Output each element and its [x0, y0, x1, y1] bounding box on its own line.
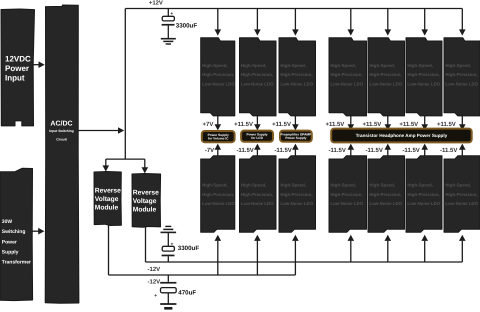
- svg-text:+11.5V: +11.5V: [234, 121, 253, 128]
- svg-text:Low-Noise LDO: Low-Noise LDO: [330, 201, 363, 206]
- svg-text:Input Switching: Input Switching: [49, 129, 74, 133]
- svg-text:High-Speed,: High-Speed,: [202, 183, 228, 188]
- svg-text:Voltage: Voltage: [95, 196, 119, 203]
- svg-text:Low-Noise LDO: Low-Noise LDO: [445, 81, 478, 86]
- svg-text:High-Precision,: High-Precision,: [202, 192, 234, 197]
- svg-text:High-Speed,: High-Speed,: [330, 63, 356, 68]
- svg-text:-11.5V: -11.5V: [402, 147, 419, 154]
- svg-text:High-Precision,: High-Precision,: [407, 72, 439, 77]
- svg-text:High-Speed,: High-Speed,: [241, 63, 267, 68]
- svg-text:High-Precision,: High-Precision,: [241, 192, 273, 197]
- svg-text:3300uF: 3300uF: [176, 22, 198, 29]
- svg-text:Supply: Supply: [2, 249, 19, 255]
- svg-text:Transistor Headphone Amp Power: Transistor Headphone Amp Power Supply: [356, 133, 448, 138]
- svg-text:High-Speed,: High-Speed,: [241, 183, 267, 188]
- svg-text:High-Speed,: High-Speed,: [445, 183, 471, 188]
- svg-text:+11.5V: +11.5V: [362, 121, 381, 128]
- svg-text:High-Speed,: High-Speed,: [330, 183, 356, 188]
- svg-text:Input: Input: [5, 74, 25, 83]
- svg-text:High-Precision,: High-Precision,: [445, 72, 477, 77]
- svg-text:Module: Module: [95, 205, 119, 212]
- svg-text:Power Supply: Power Supply: [285, 136, 306, 140]
- svg-text:+11.5V: +11.5V: [437, 121, 456, 128]
- svg-text:Low-Noise LDO: Low-Noise LDO: [202, 201, 235, 206]
- svg-text:Low-Noise LDO: Low-Noise LDO: [241, 201, 274, 206]
- svg-text:30W: 30W: [2, 219, 13, 225]
- svg-text:+: +: [154, 293, 157, 299]
- svg-text:Power: Power: [5, 64, 29, 73]
- svg-text:Low-Noise LDO: Low-Noise LDO: [369, 81, 402, 86]
- svg-text:Switching: Switching: [2, 229, 26, 235]
- svg-text:470uF: 470uF: [178, 290, 196, 297]
- svg-text:Low-Noise LDO: Low-Noise LDO: [445, 201, 478, 206]
- svg-text:High-Precision,: High-Precision,: [330, 192, 362, 197]
- svg-text:High-Precision,: High-Precision,: [280, 72, 312, 77]
- svg-text:Low-Noise LDO: Low-Noise LDO: [407, 201, 440, 206]
- svg-text:+11.5V: +11.5V: [399, 121, 418, 128]
- svg-text:AC/DC: AC/DC: [50, 119, 72, 127]
- svg-text:High-Precision,: High-Precision,: [241, 72, 273, 77]
- svg-text:+12V: +12V: [149, 0, 163, 7]
- svg-text:Low-Noise LDO: Low-Noise LDO: [330, 81, 363, 86]
- svg-text:High-Precision,: High-Precision,: [202, 72, 234, 77]
- svg-text:High-Speed,: High-Speed,: [407, 63, 433, 68]
- svg-text:High-Speed,: High-Speed,: [280, 183, 306, 188]
- svg-text:Low-Noise LDO: Low-Noise LDO: [280, 81, 313, 86]
- svg-text:-12V: -12V: [148, 266, 161, 273]
- svg-text:+7V: +7V: [203, 121, 214, 128]
- svg-text:Low-Noise LDO: Low-Noise LDO: [202, 81, 235, 86]
- svg-text:Module: Module: [133, 207, 157, 214]
- svg-text:for Volume IC: for Volume IC: [208, 137, 229, 141]
- svg-text:-11.5V: -11.5V: [236, 147, 253, 154]
- svg-text:+11.5V: +11.5V: [272, 121, 291, 128]
- svg-text:3300uF: 3300uF: [178, 245, 200, 252]
- svg-text:for LCD: for LCD: [251, 136, 263, 140]
- svg-text:Reverse: Reverse: [133, 189, 159, 196]
- svg-text:12VDC: 12VDC: [5, 55, 31, 64]
- svg-text:Low-Noise LDO: Low-Noise LDO: [280, 201, 313, 206]
- svg-text:-7V: -7V: [205, 147, 214, 154]
- svg-text:High-Speed,: High-Speed,: [280, 63, 306, 68]
- svg-text:High-Speed,: High-Speed,: [369, 183, 395, 188]
- svg-text:High-Speed,: High-Speed,: [369, 63, 395, 68]
- svg-text:-12V: -12V: [148, 279, 161, 286]
- svg-text:+11.5V: +11.5V: [325, 121, 344, 128]
- svg-text:Low-Noise LDO: Low-Noise LDO: [241, 81, 274, 86]
- svg-text:High-Precision,: High-Precision,: [280, 192, 312, 197]
- svg-text:High-Precision,: High-Precision,: [369, 192, 401, 197]
- svg-text:Low-Noise LDO: Low-Noise LDO: [369, 201, 402, 206]
- svg-text:Reverse: Reverse: [95, 187, 121, 194]
- svg-text:Power: Power: [2, 239, 17, 245]
- svg-text:Voltage: Voltage: [133, 198, 157, 205]
- svg-text:-11.5V: -11.5V: [440, 147, 457, 154]
- svg-text:High-Precision,: High-Precision,: [407, 192, 439, 197]
- svg-text:High-Speed,: High-Speed,: [202, 63, 228, 68]
- svg-text:High-Speed,: High-Speed,: [445, 63, 471, 68]
- svg-text:-11.5V: -11.5V: [366, 147, 383, 154]
- svg-text:High-Precision,: High-Precision,: [369, 72, 401, 77]
- svg-text:High-Precision,: High-Precision,: [330, 72, 362, 77]
- svg-text:Transformer: Transformer: [2, 260, 31, 266]
- svg-text:Circuit: Circuit: [56, 138, 67, 142]
- svg-text:High-Precision,: High-Precision,: [445, 192, 477, 197]
- svg-text:High-Speed,: High-Speed,: [407, 183, 433, 188]
- svg-text:-11.5V: -11.5V: [274, 147, 291, 154]
- svg-text:Low-Noise LDO: Low-Noise LDO: [407, 81, 440, 86]
- svg-text:-11.5V: -11.5V: [329, 147, 346, 154]
